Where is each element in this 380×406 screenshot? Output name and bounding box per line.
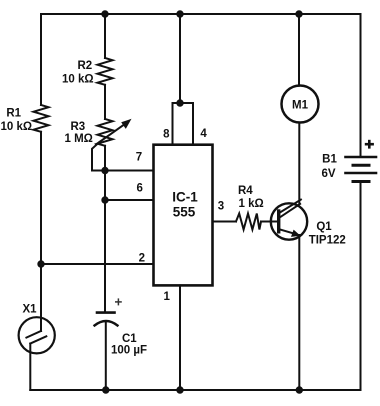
wire R3 to C1 (104, 146, 106, 313)
resistor R1 (34, 105, 49, 132)
wire R2 to R3 (104, 85, 106, 119)
label battery plus (365, 140, 374, 149)
node top-M1 junction (295, 10, 302, 17)
resistor R4 (236, 214, 261, 230)
wire left rail lower (40, 132, 42, 331)
wire right rail upper (360, 14, 362, 157)
wire R4 to base (261, 221, 277, 223)
svg-text:B1: B1 (322, 154, 337, 166)
transistor Q1 (271, 200, 307, 240)
node pins 8-4 junction (176, 99, 183, 106)
battery B1 (346, 157, 377, 182)
svg-text:IC-1: IC-1 (172, 190, 198, 205)
node top-IC junction (176, 10, 183, 17)
svg-text:R4: R4 (238, 185, 253, 197)
wire bottom rail (30, 389, 360, 391)
svg-text:X1: X1 (22, 304, 37, 316)
wire pin3 (213, 221, 237, 223)
svg-text:3: 3 (218, 201, 224, 213)
node top-R2 junction (101, 10, 108, 17)
wire emitter down (298, 235, 300, 390)
svg-text:TIP122: TIP122 (309, 234, 346, 246)
node pin2 junction (37, 260, 44, 267)
node bottom-emitter junction (296, 386, 303, 393)
wire left rail upper (40, 14, 42, 105)
svg-text:4: 4 (200, 128, 207, 140)
label C1 plus (115, 298, 122, 305)
wire IC supply drop (179, 14, 181, 103)
wire pin2 (41, 263, 154, 265)
node pin6 junction (101, 196, 108, 203)
wire pins 8-4 link (173, 103, 194, 145)
wire pin6 (105, 199, 154, 201)
svg-text:M1: M1 (292, 100, 309, 112)
svg-text:2: 2 (139, 252, 145, 264)
wire R3 wiper jog (92, 142, 100, 171)
svg-text:10 kΩ: 10 kΩ (1, 121, 33, 133)
svg-text:8: 8 (163, 129, 170, 141)
svg-text:R3: R3 (71, 121, 86, 133)
svg-text:555: 555 (173, 205, 196, 220)
svg-text:1: 1 (163, 291, 170, 303)
svg-text:10 kΩ: 10 kΩ (62, 73, 94, 85)
svg-text:1 MΩ: 1 MΩ (65, 133, 93, 145)
capacitor C1 (95, 313, 118, 390)
svg-text:C1: C1 (122, 333, 137, 345)
switch X1 (19, 317, 55, 390)
svg-text:Q1: Q1 (316, 221, 332, 233)
op-amp U1: IC-1 555 box (154, 145, 213, 286)
resistor R2 (98, 58, 113, 85)
node bottom-pin1 junction (176, 386, 183, 393)
svg-text:100 µF: 100 µF (111, 344, 147, 356)
node bottom-C1 junction (102, 386, 109, 393)
svg-text:6: 6 (136, 182, 142, 194)
wire motor feed (298, 14, 300, 86)
wire right rail lower (360, 182, 362, 391)
svg-text:R2: R2 (78, 60, 93, 72)
svg-text:7: 7 (136, 151, 142, 163)
svg-text:R1: R1 (6, 107, 21, 119)
wire collector to motor (298, 123, 300, 204)
svg-text:6V: 6V (321, 168, 335, 180)
motor M1 (282, 86, 319, 123)
wire top rail (41, 13, 361, 15)
R3 wiper arrow (96, 119, 132, 145)
wire pin1 ground (179, 285, 181, 390)
node pin7 junction (101, 167, 108, 174)
potentiometer R3 (98, 119, 113, 146)
svg-text:1 kΩ: 1 kΩ (239, 198, 264, 210)
wire R2 branch top (104, 14, 106, 58)
wire pin7 (92, 170, 154, 172)
